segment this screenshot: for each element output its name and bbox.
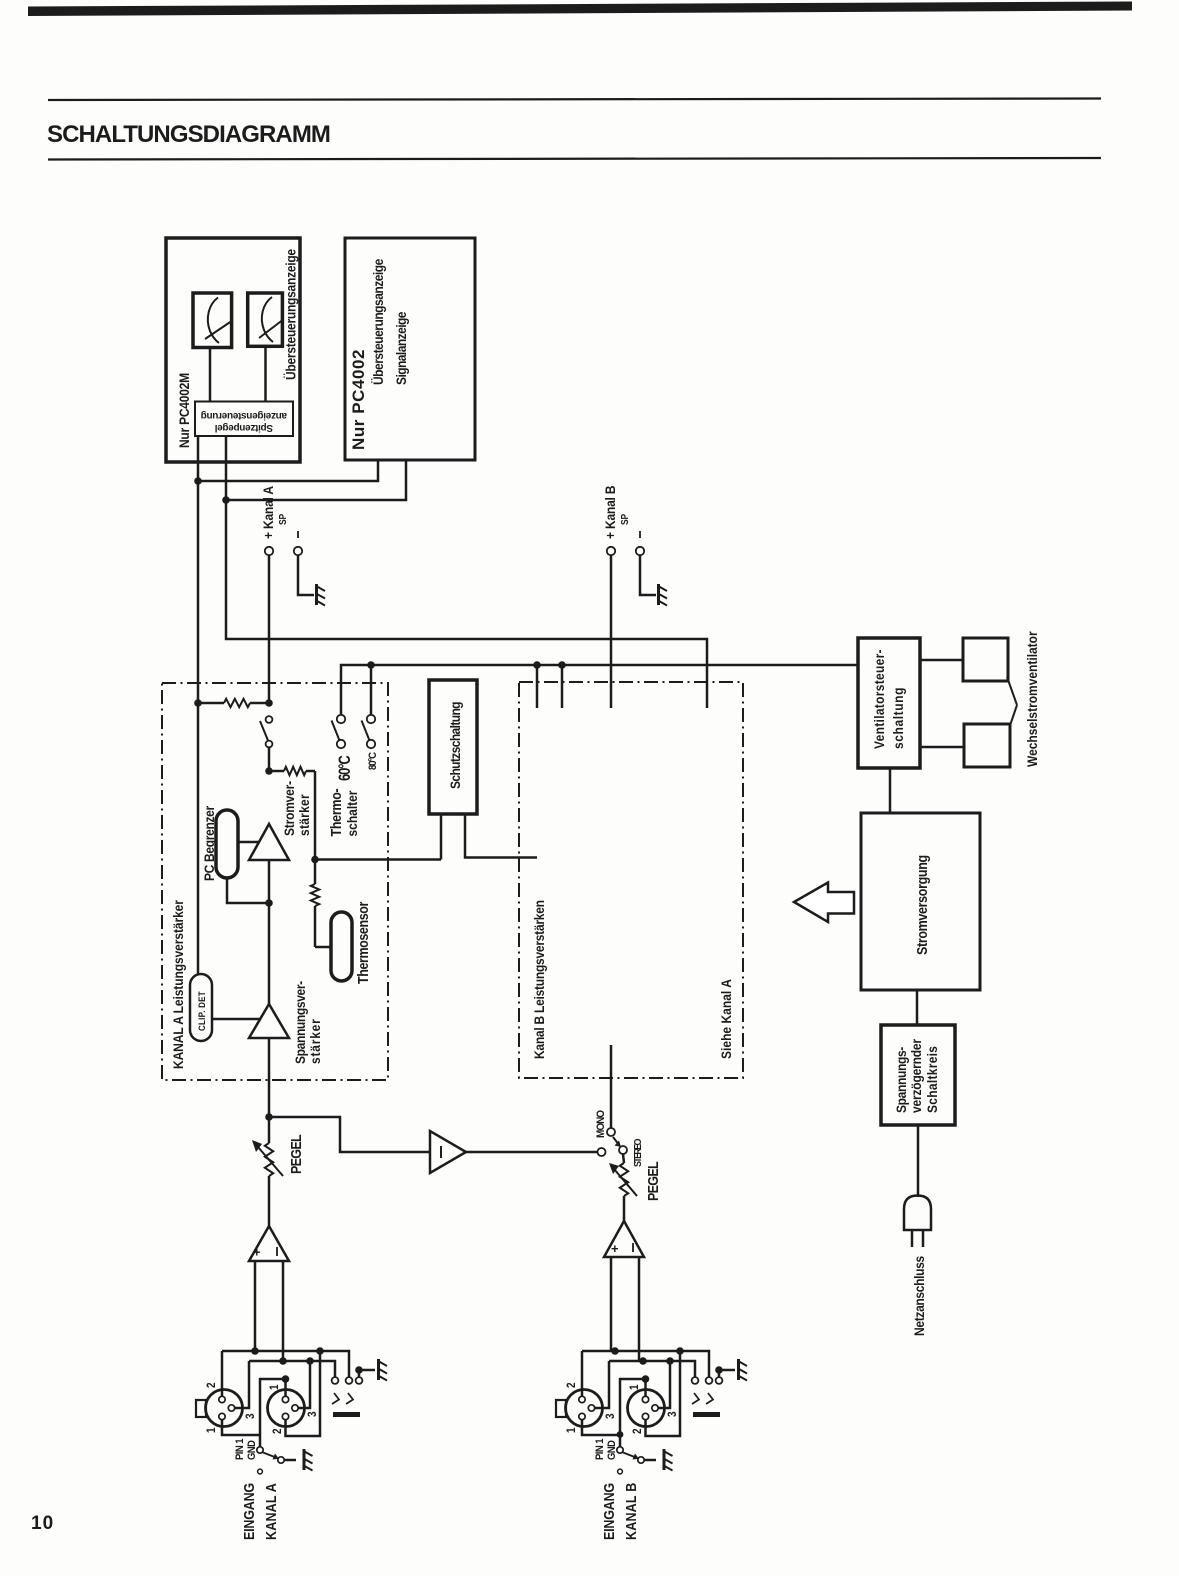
node jack ground (A) <box>355 1366 363 1374</box>
bracket fans <box>1007 677 1017 705</box>
wire stub 2 into Kanal B block <box>561 665 564 708</box>
wire clip det to amp <box>212 1018 260 1021</box>
svg-text:Nur PC4002M: Nur PC4002M <box>176 373 192 448</box>
wire female pin2 to bus1 (A) <box>286 1351 321 1436</box>
node female pin1 (B) <box>642 1375 650 1383</box>
connector XLR male JB1 <box>566 1390 603 1427</box>
switch arm mono-stereo <box>613 1137 618 1144</box>
svg-text:Siehe Kanal A: Siehe Kanal A <box>718 979 734 1059</box>
wire input amp B inverting leg <box>610 1257 613 1351</box>
svg-text:+: + <box>253 1245 261 1260</box>
contact STEREO <box>619 1146 627 1154</box>
svg-text:Nur PC4002: Nur PC4002 <box>349 349 368 450</box>
rule below title <box>48 158 1101 160</box>
svg-text:Spannungsver-: Spannungsver- <box>292 981 308 1064</box>
label minus terminal B <box>639 531 641 538</box>
wire female pin1 up (B) <box>644 1379 647 1396</box>
node resistor R1 right <box>265 699 273 707</box>
wire controller left output (long vertical to CLIP DET) <box>197 436 200 974</box>
wire input bus 2 (B) <box>609 1361 695 1377</box>
block Spannungs-verzoegernder Schaltkreis <box>881 1025 955 1125</box>
wire male pin3 to bus2 (B) <box>595 1361 609 1408</box>
svg-text:+: + <box>611 1241 619 1256</box>
jack sleeve (B) <box>693 1412 720 1417</box>
node female pin1 (A) <box>282 1375 290 1383</box>
node bus2 female pin3 (A) <box>306 1357 314 1365</box>
svg-text:1: 1 <box>565 1427 578 1433</box>
svg-text:KANAL B: KANAL B <box>623 1483 639 1540</box>
svg-text:EINGANG: EINGANG <box>241 1483 257 1540</box>
wire level tap to inverter <box>269 1117 430 1152</box>
op-amp input B <box>604 1221 644 1257</box>
meter M2 <box>248 293 283 346</box>
wire +A terminal down <box>268 555 271 703</box>
connector XLR male JA1 <box>206 1390 243 1427</box>
node Kanal B stub 2 <box>558 661 566 669</box>
svg-text:1: 1 <box>205 1427 218 1433</box>
wire PC4002 output 1 <box>200 460 378 481</box>
switch PIN 1 GND (B) <box>617 1447 623 1453</box>
switch 60C thermo <box>337 715 345 723</box>
wire pin1 node to gnd switch (B) <box>620 1379 646 1447</box>
op-amp inverter (mono bridge) <box>430 1131 466 1173</box>
block Ventilatorsteuerschaltung <box>858 638 920 768</box>
potentiometer PEGEL A <box>268 1117 271 1143</box>
wire jack contact3 to ground (B) <box>718 1370 721 1377</box>
component PC Begrenzer (limiter) <box>216 810 238 878</box>
jack spring contact 2 (A) <box>346 1393 353 1404</box>
wire Kanal B output stub to mono switch <box>610 1045 613 1128</box>
jack contact 2 (B) <box>706 1377 713 1384</box>
chassis ground input (A) <box>303 1449 306 1470</box>
node R2 feed <box>265 767 273 775</box>
wire fan control to fan 2 <box>920 746 964 749</box>
svg-text:3: 3 <box>666 1411 679 1417</box>
svg-text:Spannungs-: Spannungs- <box>893 1047 909 1113</box>
svg-text:3: 3 <box>604 1413 617 1419</box>
contact MONO <box>607 1128 615 1136</box>
component CLIP. DET <box>190 974 212 1041</box>
jack contact 3 (A) <box>356 1377 363 1384</box>
wire +B terminal down (stub into Kanal B block) <box>610 555 613 708</box>
wire female pin1 up (A) <box>284 1379 287 1396</box>
svg-text:Stromver-: Stromver- <box>281 781 297 836</box>
chassis ground jack (B) <box>737 1359 740 1380</box>
wire input bus 1 (B) <box>582 1351 709 1377</box>
node bus1 amp leg (B) <box>611 1347 619 1355</box>
block Stromversorgung <box>861 813 980 990</box>
resistor R1 (relay feed) <box>224 699 250 707</box>
jack spring contact 1 (A) <box>332 1393 339 1404</box>
svg-text:MONO: MONO <box>595 1110 608 1138</box>
svg-text:1: 1 <box>268 1384 281 1390</box>
wire Stromverstaerker to Spannungsverstaerker <box>268 860 271 1004</box>
node gnd switch B extra <box>617 1431 624 1438</box>
wire S1 to node <box>268 748 271 772</box>
svg-text:3: 3 <box>306 1411 319 1417</box>
svg-text:Wechselstromventilator: Wechselstromventilator <box>1024 631 1040 767</box>
jack contact 1 (B) <box>692 1377 699 1384</box>
wire female pin3 to bus2 (A) <box>298 1361 310 1408</box>
wire meter M1 to controller <box>209 348 212 402</box>
chassis ground B speaker <box>657 584 660 605</box>
connector mains plug <box>904 1196 931 1231</box>
svg-text:STEREO: STEREO <box>633 1139 645 1167</box>
svg-text:PIN 1: PIN 1 <box>594 1438 606 1460</box>
header bar <box>28 2 1132 17</box>
node 80C tap <box>367 661 375 669</box>
node level tap A <box>265 1113 273 1121</box>
node bus1 female pin2 (B) <box>676 1347 684 1355</box>
svg-text:Schaltkreis: Schaltkreis <box>924 1046 940 1113</box>
wire R3 to Thermosensor <box>315 946 331 949</box>
svg-text:anzeigensteuerung: anzeigensteuerung <box>201 410 287 421</box>
wire controller right output (down then across) <box>226 436 707 708</box>
svg-text:Signalanzeige: Signalanzeige <box>393 312 409 385</box>
svg-text:Kanal B Leistungsverstärken: Kanal B Leistungsverstärken <box>531 900 547 1059</box>
connector XLR female JA2 <box>268 1390 305 1427</box>
svg-text:+ Kanal A: + Kanal A <box>260 485 276 539</box>
arrow power supply output <box>794 883 854 923</box>
wire limiter to amp <box>238 841 260 844</box>
svg-text:GND: GND <box>246 1440 258 1460</box>
svg-text:3: 3 <box>244 1413 257 1419</box>
jack contact 3 (B) <box>716 1377 723 1384</box>
wire gnd switch to chassis (A) <box>284 1459 296 1462</box>
terminal + Kanal B <box>607 547 615 555</box>
op-amp Stromverstaerker <box>249 824 289 860</box>
svg-text:Ventilatorsteuer-: Ventilatorsteuer- <box>871 649 887 749</box>
wire inverter output <box>466 1151 598 1154</box>
svg-text:80°C: 80°C <box>367 752 379 770</box>
terminal - Kanal B <box>636 547 644 555</box>
svg-text:Netzanschluss: Netzanschluss <box>911 1256 927 1336</box>
wire input amp A inverting leg <box>254 1261 257 1351</box>
switch 80C thermo <box>367 715 375 723</box>
wire bus to thermo switches and fan control <box>341 665 858 714</box>
wire 60C switch feed <box>370 665 373 715</box>
chassis ground jack (A) <box>377 1359 380 1380</box>
svg-text:Übersteuerungsanzeige: Übersteuerungsanzeige <box>370 259 386 385</box>
wire input bus 2 (A) <box>249 1361 335 1377</box>
svg-text:1: 1 <box>628 1384 641 1390</box>
svg-text:Übersteuerungsanzeige: Übersteuerungsanzeige <box>283 249 299 380</box>
jack contact 2 (A) <box>346 1377 353 1384</box>
resistor R3 (thermo sense) <box>314 861 317 884</box>
wire pin1 node to gnd switch (A) <box>260 1379 286 1447</box>
wire stub 1 into Kanal B block <box>536 665 539 708</box>
svg-text:CLIP. DET: CLIP. DET <box>196 991 207 1031</box>
block PC4002M (meter display unit) <box>166 238 300 462</box>
wire power supply to delay circuit <box>916 990 919 1025</box>
wire input amp B non-inverting leg <box>638 1257 641 1361</box>
wire sense bus to Schutzschaltung <box>315 858 441 861</box>
svg-text:PC Begrenzer: PC Begrenzer <box>201 806 217 881</box>
svg-text:GND: GND <box>606 1440 618 1460</box>
chassis ground input (B) <box>663 1449 666 1470</box>
wire jack contact3 to ground (A) <box>358 1370 361 1377</box>
svg-text:schalter: schalter <box>344 791 360 837</box>
svg-text:EINGANG: EINGANG <box>601 1483 617 1540</box>
svg-text:schaltung: schaltung <box>890 687 906 749</box>
block Kanal B Leistungsverstaerken (dash-dot) <box>519 682 743 1078</box>
svg-text:stärker: stärker <box>307 1018 323 1064</box>
wire Spannungsverstaerker output <box>268 1038 271 1117</box>
svg-text:60°C: 60°C <box>335 755 354 781</box>
wire -B terminal to ground <box>640 555 656 595</box>
rule above title <box>48 99 1101 101</box>
wire input amp A non-inverting leg <box>282 1261 285 1361</box>
terminal - Kanal A <box>294 547 302 555</box>
wire female pin3 to bus2 (B) <box>658 1361 670 1408</box>
svg-text:SP: SP <box>277 514 288 525</box>
jack contact 1 (A) <box>332 1377 339 1384</box>
svg-text:stärker: stärker <box>296 794 312 836</box>
connector XLR female JB2 <box>628 1390 665 1427</box>
node junction on left vertical (to PC4002) <box>194 477 202 485</box>
svg-text:+ Kanal B: + Kanal B <box>602 486 618 539</box>
label minus terminal A <box>297 531 299 538</box>
svg-text:Spitzenpegel: Spitzenpegel <box>214 422 273 433</box>
potentiometer PEGEL B <box>623 1154 624 1163</box>
meter M1 <box>193 293 232 348</box>
svg-text:10: 10 <box>31 1513 54 1534</box>
wire gnd switch to chassis (B) <box>644 1459 656 1462</box>
svg-text:KANAL A: KANAL A <box>263 1483 279 1540</box>
wire Schutzschaltung left output <box>440 814 443 860</box>
svg-text:PEGEL: PEGEL <box>645 1162 661 1201</box>
component Thermosensor <box>331 912 352 981</box>
wire male pin1 to gnd switch (B) <box>582 1420 620 1435</box>
block PC4002 (signal display unit) <box>345 238 475 460</box>
node jack ground (B) <box>715 1366 723 1374</box>
svg-text:Stromversorgung: Stromversorgung <box>914 855 930 955</box>
svg-text:Schutzschaltung: Schutzschaltung <box>447 702 463 789</box>
svg-text:PIN 1: PIN 1 <box>234 1438 246 1460</box>
svg-text:Thermo-: Thermo- <box>328 789 344 837</box>
node junction on right vertical (to PC4002) <box>222 496 230 504</box>
wire input bus 1 (A) <box>222 1351 349 1377</box>
jack sleeve (A) <box>333 1412 360 1417</box>
component fan 2 <box>964 724 1010 767</box>
terminal + Kanal A <box>265 547 273 555</box>
svg-text:2: 2 <box>271 1428 284 1434</box>
block Schutzschaltung <box>429 680 477 814</box>
op-amp Spannungsverstaerker <box>249 1004 289 1038</box>
wire fan control to fan 1 <box>920 659 963 662</box>
svg-text:2: 2 <box>205 1382 218 1388</box>
node bus2 amp leg (B) <box>639 1357 647 1365</box>
wire meter M2 to controller <box>264 346 267 401</box>
wire pot B to input amp B <box>623 1196 626 1221</box>
svg-text:KANAL A Leistungsverstärker: KANAL A Leistungsverstärker <box>170 900 186 1069</box>
svg-text:verzögernder: verzögernder <box>908 1039 924 1113</box>
node bus2 female pin3 (B) <box>666 1357 674 1365</box>
wire male pin1 to gnd switch (A) <box>222 1420 260 1435</box>
wire limiter bottom tap <box>227 878 269 903</box>
wire delay circuit to mains plug <box>917 1125 920 1197</box>
jack spring contact 2 (B) <box>706 1393 713 1404</box>
svg-text:SP: SP <box>619 514 630 525</box>
node limiter tap <box>265 899 273 907</box>
jack spring contact 1 (B) <box>692 1393 699 1404</box>
node current sense <box>311 856 319 864</box>
wire male pin2 to bus1 (A) <box>221 1351 224 1396</box>
svg-text:2: 2 <box>565 1382 578 1388</box>
svg-text:PEGEL: PEGEL <box>288 1135 304 1174</box>
svg-text:2: 2 <box>631 1428 644 1434</box>
box Spitzenpegel anzeigensteuerung (text rotated 180) <box>195 402 293 437</box>
node bus2 amp leg (A) <box>279 1357 287 1365</box>
contact inverter output <box>598 1148 606 1156</box>
wire pot A to input amp A <box>268 1176 271 1226</box>
op-amp input A <box>249 1226 289 1261</box>
wire R2 down to sense node <box>314 771 317 858</box>
node Kanal B stub 1 <box>533 661 541 669</box>
wire male pin2 to bus1 (B) <box>581 1351 584 1396</box>
svg-text:Thermosensor: Thermosensor <box>355 901 371 984</box>
switch PIN 1 GND (A) <box>257 1447 263 1453</box>
chassis ground A speaker <box>315 584 318 605</box>
wire male pin3 to bus2 (A) <box>235 1361 249 1408</box>
node bus1 amp leg (A) <box>251 1347 259 1355</box>
node resistor R1 left <box>194 699 202 707</box>
component fan 1 <box>963 638 1008 681</box>
resistor R2 <box>284 767 306 775</box>
wire Schutzschaltung right output <box>465 814 537 858</box>
node bus1 female pin2 (A) <box>316 1347 324 1355</box>
wire female pin2 to bus1 (B) <box>646 1351 681 1436</box>
wire PC4002 output 2 <box>228 460 406 500</box>
wire fan control to power supply <box>889 768 892 813</box>
block KANAL A Leistungsverstaerker (dash-dot) <box>162 683 388 1080</box>
switch S1 output relay <box>266 716 273 723</box>
wire -A terminal to ground <box>298 555 314 595</box>
svg-text:SCHALTUNGSDIAGRAMM: SCHALTUNGSDIAGRAMM <box>47 121 330 148</box>
